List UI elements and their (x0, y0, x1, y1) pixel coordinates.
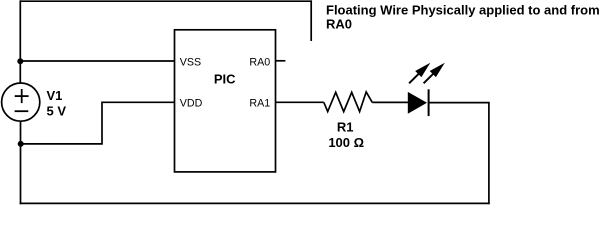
junction node on VSS net (17, 58, 23, 64)
svg-text:Floating Wire Physically appli: Floating Wire Physically applied to and … (326, 2, 600, 17)
wire V1 minus terminal down to bottom rail (20, 122, 22, 205)
LED D1 cathode bar (428, 89, 430, 116)
wire left vertical (top wire down to V1 plus terminal) (19, 0, 21, 82)
svg-text:PIC: PIC (214, 72, 236, 87)
svg-text:RA0: RA0 (249, 56, 270, 68)
voltage source V1 (2, 83, 40, 121)
svg-text:VDD: VDD (180, 97, 203, 109)
svg-text:100 Ω: 100 Ω (328, 135, 364, 150)
svg-text:RA0: RA0 (326, 17, 352, 32)
svg-text:RA1: RA1 (249, 97, 270, 109)
svg-text:5 V: 5 V (47, 103, 67, 118)
wire floating vertical drop toward RA0 (310, 0, 312, 41)
wire right vertical (LED cathode down to bottom rail) (488, 103, 490, 205)
wire resistor R1 to LED D1 (372, 101, 408, 103)
LED D1 emission arrow 1 (409, 63, 430, 84)
svg-text:R1: R1 (337, 120, 354, 135)
wire RA1 to resistor R1 (276, 101, 324, 103)
LED D1 emission arrow 2 (424, 63, 445, 84)
svg-text:VSS: VSS (180, 56, 201, 68)
pin RA0 stub wire (276, 60, 286, 62)
svg-text:V1: V1 (47, 88, 63, 103)
wire top horizontal (V1+ to floating wire corner) (20, 0, 313, 2)
wire LED D1 cathode to right vertical (429, 102, 490, 104)
wire VSS net to PIC (20, 60, 175, 62)
LED D1 anode triangle (408, 92, 427, 114)
wire bottom return rail (20, 202, 490, 204)
junction node on VDD branch (18, 141, 24, 147)
IC U1 PIC body (175, 30, 276, 172)
resistor R1 (324, 92, 373, 112)
wire VDD branch to PIC (21, 102, 175, 144)
